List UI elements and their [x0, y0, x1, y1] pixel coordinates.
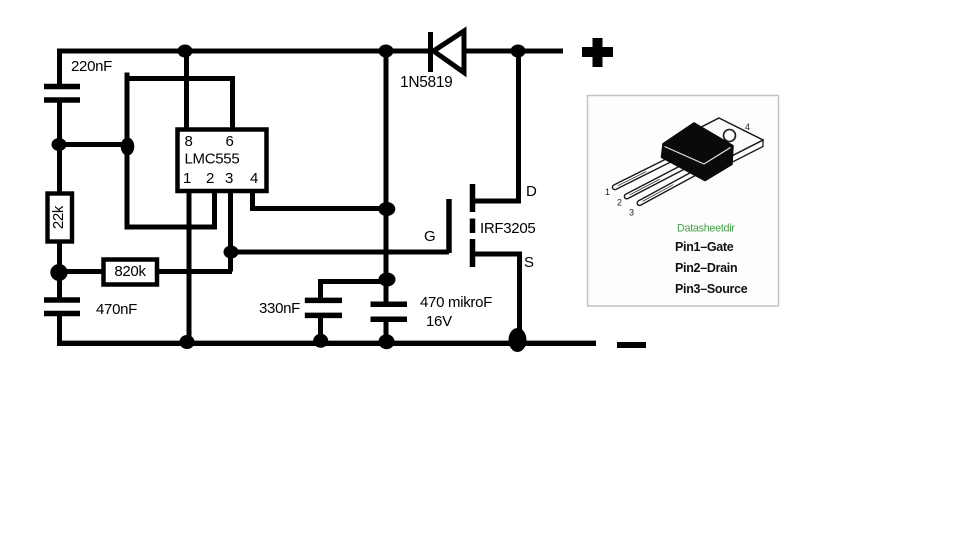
minus terminal	[617, 342, 646, 348]
wire 330nF bottom	[318, 313, 323, 343]
wire Q1 drain lead	[475, 51, 519, 201]
transistor Q1 channel bar	[470, 184, 476, 267]
svg-text:330nF: 330nF	[259, 300, 300, 317]
svg-text:16V: 16V	[426, 313, 452, 330]
junction node D	[224, 246, 239, 259]
junction node F	[379, 273, 396, 287]
junction bottom rail C4	[379, 334, 395, 349]
wire node A to node B	[57, 142, 129, 147]
wire pin3 down	[228, 192, 233, 272]
svg-text:S: S	[524, 254, 534, 271]
TO-220 tab hole	[724, 130, 736, 142]
TO-220 lead 3	[636, 169, 700, 207]
svg-text:1N5819: 1N5819	[400, 74, 453, 91]
junction top rail supply branch	[379, 45, 394, 58]
wire Q1 source lead	[475, 254, 520, 343]
junction top rail pin8	[178, 45, 193, 58]
svg-text:470nF: 470nF	[96, 301, 137, 318]
wire pin8 to top rail	[184, 51, 189, 130]
wire C1 to node A	[57, 98, 62, 147]
svg-text:8: 8	[184, 133, 192, 150]
IC U1 LMC555	[178, 130, 267, 192]
svg-text:Pin3–Source: Pin3–Source	[675, 282, 748, 296]
svg-text:Pin2–Drain: Pin2–Drain	[675, 261, 737, 275]
TO-220 body	[662, 124, 733, 181]
wire bottom rail	[57, 341, 596, 346]
wire C2 to bottom rail	[57, 315, 63, 343]
wire top rail left	[60, 51, 429, 88]
diode D1 cathode bar	[428, 32, 433, 72]
svg-text:220nF: 220nF	[71, 58, 112, 75]
svg-text:6: 6	[225, 133, 233, 150]
capacitor C3 330nF	[305, 300, 342, 315]
svg-text:Pin1–Gate: Pin1–Gate	[675, 240, 734, 254]
wire gate	[231, 250, 449, 255]
wire top rail right	[463, 49, 563, 54]
svg-text:22k: 22k	[50, 205, 67, 229]
TO-220 metal tab	[664, 118, 763, 175]
wire pin6-pin2 link	[127, 79, 233, 228]
wire node A to 22k	[57, 142, 62, 195]
junction bottom rail C3	[313, 334, 328, 348]
junction node C	[50, 264, 67, 281]
wire 330nF top	[321, 282, 387, 300]
wire 22k to node C	[57, 242, 62, 274]
svg-text:D: D	[526, 183, 537, 200]
svg-text:G: G	[424, 228, 435, 245]
junction top rail drain	[511, 45, 526, 58]
wire R2 to pin3 branch	[158, 269, 232, 274]
TO-220 lead 1	[612, 157, 673, 191]
junction node E	[378, 202, 395, 216]
wire stub above pin6 corner	[125, 73, 130, 81]
plus terminal	[582, 38, 613, 67]
svg-text:4: 4	[745, 122, 750, 132]
wire supply branch vertical	[384, 49, 389, 302]
svg-text:3: 3	[225, 170, 233, 187]
svg-text:1: 1	[183, 170, 191, 187]
junction node A	[52, 138, 67, 151]
svg-text:4: 4	[250, 170, 258, 187]
transistor Q1 gate bar	[446, 199, 452, 253]
resistor R1 22k	[48, 194, 73, 242]
capacitor C4 470uF	[371, 304, 408, 319]
wire node C to C2	[57, 270, 62, 298]
svg-text:820k: 820k	[114, 263, 146, 280]
junction bottom rail source	[509, 328, 527, 352]
datasheet panel	[588, 96, 779, 307]
wire pin1 to bottom rail	[187, 192, 192, 343]
junction node B	[121, 138, 135, 156]
svg-text:IRF3205: IRF3205	[480, 220, 535, 237]
wire C4 to bottom rail	[384, 320, 389, 343]
wire node C to R2	[57, 269, 103, 274]
resistor R2 820k	[104, 260, 158, 285]
capacitor C1 220nF	[44, 87, 80, 101]
svg-text:LMC555: LMC555	[185, 151, 240, 168]
svg-text:470 mikroF: 470 mikroF	[420, 294, 492, 311]
svg-text:2: 2	[206, 170, 214, 187]
svg-text:1: 1	[605, 187, 610, 197]
svg-text:3: 3	[629, 208, 634, 218]
svg-text:Datasheetdir: Datasheetdir	[677, 223, 735, 235]
wire pin4 to supply branch	[253, 192, 387, 209]
capacitor C2 470nF	[44, 300, 80, 314]
svg-text:2: 2	[617, 198, 622, 208]
TO-220 lead 2	[624, 164, 687, 200]
junction bottom rail pin1	[180, 335, 195, 349]
diode D1 triangle	[434, 31, 465, 73]
